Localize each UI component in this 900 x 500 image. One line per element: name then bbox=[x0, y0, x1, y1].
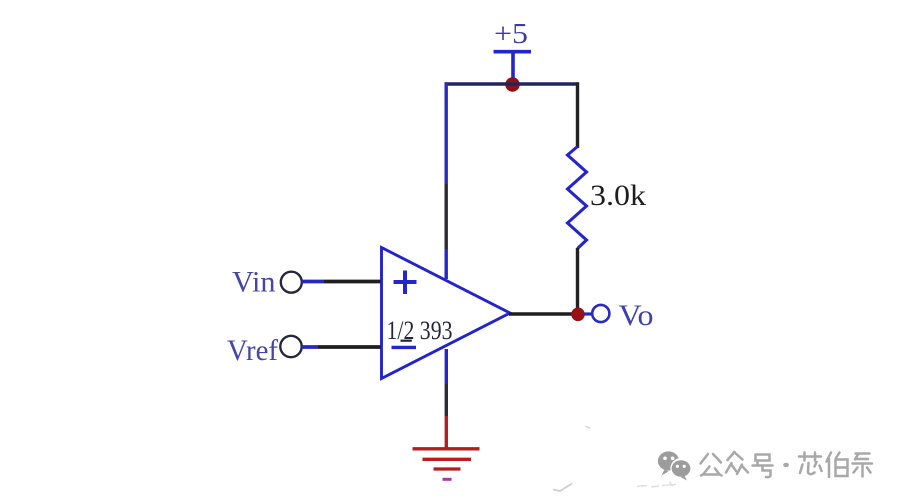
glyph bo bbox=[827, 453, 848, 478]
resistor R 3.0k zigzag bbox=[568, 147, 587, 249]
middle dot bbox=[785, 463, 787, 467]
glyph zhong bbox=[726, 452, 748, 474]
glyph hao bbox=[753, 455, 773, 478]
junction dot at output node bbox=[571, 308, 585, 322]
input terminal Vin circle bbox=[281, 272, 302, 293]
svg-text:Vin: Vin bbox=[232, 266, 276, 299]
wire output from op-amp apex bbox=[509, 312, 578, 316]
plus input symbol bbox=[394, 280, 417, 284]
junction dot at +5 node bbox=[505, 77, 519, 91]
glyph xin bbox=[799, 453, 822, 475]
wire Vref black segment bbox=[318, 345, 381, 349]
wire left vertical V+ supply (blue upper) bbox=[445, 82, 448, 184]
svg-text:Vo: Vo bbox=[619, 299, 654, 332]
svg-text:3.0k: 3.0k bbox=[590, 179, 646, 212]
underline under 2 bbox=[401, 340, 412, 342]
wire stub from +5 bar to junction bbox=[511, 52, 515, 84]
wire Vin black segment bbox=[324, 280, 381, 284]
wire left vertical V+ supply (blue lower into op-amp) bbox=[445, 249, 448, 279]
input terminal Vref circle bbox=[280, 336, 301, 357]
faint artifact speck bbox=[586, 427, 591, 429]
op-amp U 1/2 393 triangle bbox=[382, 248, 511, 379]
svg-text:1/2 393: 1/2 393 bbox=[387, 315, 453, 345]
wire V- supply red segment to ground bbox=[445, 416, 448, 449]
wire top horizontal bbox=[445, 82, 579, 86]
wire left vertical V+ supply (dark middle) bbox=[445, 184, 448, 249]
watermark wechat icon bbox=[658, 451, 692, 480]
svg-text:+5: +5 bbox=[494, 18, 528, 50]
minus input symbol bbox=[392, 346, 417, 349]
faint artifact squiggle under icon bbox=[637, 482, 676, 488]
blue stub from junction to Vo terminal bbox=[584, 312, 593, 315]
ground symbol bbox=[413, 449, 480, 480]
terminal Vo circle bbox=[592, 305, 609, 322]
wire Vref blue segment bbox=[302, 345, 318, 349]
glyph le bbox=[853, 454, 873, 477]
wire Vin blue segment bbox=[302, 280, 324, 284]
wire V- supply dark segment bbox=[445, 384, 448, 416]
glyph gong bbox=[701, 454, 722, 476]
svg-text:Vref: Vref bbox=[227, 334, 278, 367]
wire right vertical from top to resistor bbox=[576, 82, 579, 148]
wire resistor bottom to output node bbox=[576, 248, 579, 314]
power symbol +5 bar bbox=[494, 50, 532, 54]
watermark text 公众号·芯伯乐 drawn strokes bbox=[701, 452, 873, 477]
wire V- supply blue segment from op-amp bottom edge bbox=[445, 349, 448, 384]
faint artifact check mark bottom center bbox=[553, 484, 572, 492]
